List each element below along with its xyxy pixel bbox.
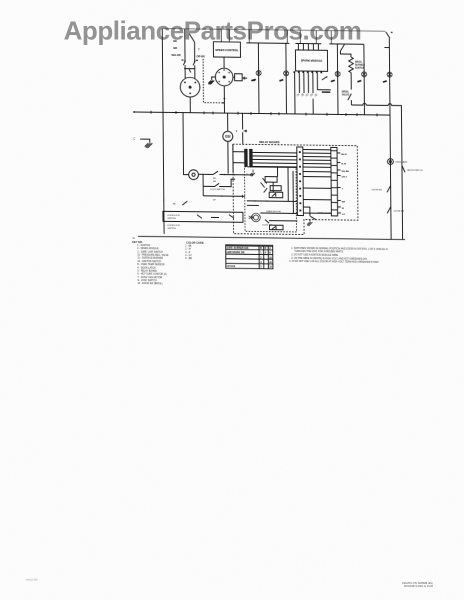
wires J1 to J2 — [303, 150, 332, 214]
diode D2 — [261, 178, 268, 193]
wire sub h1 — [247, 166, 297, 169]
wire transformer secondary — [252, 152, 297, 167]
wire to bus2 — [350, 100, 352, 105]
switch broil valve — [348, 94, 352, 101]
wire oven light feed — [303, 207, 310, 216]
motor M4 vent — [189, 170, 199, 180]
transformer T1 — [233, 144, 252, 173]
switch S2 fan speed — [193, 60, 198, 65]
relay K3 — [270, 186, 281, 191]
footer left text — [26, 579, 38, 582]
wire row2 — [203, 174, 235, 196]
motor M2 convection — [215, 68, 233, 86]
wire module pin drops — [295, 73, 331, 114]
wire speed control to motor — [223, 57, 225, 69]
wire right rail N1 — [389, 38, 391, 239]
label broil element — [355, 62, 365, 70]
wire dashed tach — [203, 59, 225, 104]
label row1 — [213, 178, 216, 183]
wiring table — [226, 245, 273, 269]
wire fan motor to bus — [189, 97, 191, 113]
switch lower N1 — [387, 207, 404, 214]
diode D1 — [269, 192, 283, 198]
wire riser a2 — [286, 30, 288, 43]
wire to fan motor — [185, 69, 195, 79]
connector arrow K1 — [243, 113, 247, 144]
wire bus2 — [351, 103, 402, 240]
legend header — [132, 240, 204, 245]
wire row3 — [203, 194, 245, 197]
resistor R1 broil element — [349, 57, 354, 73]
switch module arrow — [322, 76, 328, 80]
notes — [289, 247, 389, 264]
capacitor block M2 — [233, 74, 255, 81]
wire bottom rail — [138, 236, 405, 239]
wire vent drop — [183, 113, 189, 175]
relay K2 — [265, 177, 277, 183]
wire DSI drop — [227, 113, 230, 173]
wire branch fan motor — [184, 29, 186, 61]
switch oven light — [310, 213, 332, 220]
legend list — [137, 245, 169, 286]
spark module U2 — [295, 50, 327, 71]
ignitor E3 — [331, 71, 340, 81]
ignitor E1 — [252, 70, 261, 80]
watermark AppliancePartsPros.com — [64, 16, 362, 46]
wire tick N1 — [384, 47, 389, 49]
logic sub-board outline — [244, 167, 296, 232]
wire HV bus A — [246, 42, 289, 45]
labels J2 exits — [341, 154, 350, 216]
wire pin drop 4 — [312, 99, 314, 115]
wire riser c1 — [300, 30, 316, 43]
wires J2 exits — [337, 153, 341, 213]
ignitor E4 — [357, 72, 366, 82]
connector J1 — [297, 147, 304, 216]
wire ignitor i3 drop — [336, 44, 339, 115]
label module output — [322, 91, 331, 93]
footer right text — [402, 582, 434, 588]
wire fan bridge — [184, 65, 195, 72]
ignitor E2 — [279, 71, 288, 81]
motor M1 fan — [180, 77, 200, 97]
wire HV bus B — [329, 43, 364, 45]
ignitor E5 — [383, 72, 392, 82]
spark module bottom pins — [293, 71, 322, 73]
label bake — [342, 92, 350, 97]
wire sub h4 — [260, 212, 297, 214]
wire branch fan motor 2 — [189, 34, 194, 61]
wire ignitor i2 drop — [285, 43, 288, 114]
wire spark module top pins — [295, 43, 321, 50]
wire main bus N — [133, 111, 390, 116]
wire broil — [340, 51, 351, 57]
wire sub v1 — [273, 167, 293, 213]
lamp E6 oven — [388, 159, 408, 165]
ground sub G3 — [247, 169, 256, 176]
wire sub h5 — [269, 220, 298, 222]
switch latch — [402, 166, 423, 173]
wire sub h3 — [247, 204, 259, 206]
node junctions on bus — [151, 111, 377, 117]
speed control U1 — [213, 42, 240, 58]
switch TOD top right — [386, 32, 393, 39]
wire ignitor i1 drop — [257, 43, 260, 114]
wire below resistor — [350, 73, 352, 90]
wire riser a1 — [248, 30, 250, 43]
indicator DSI — [223, 131, 233, 141]
door lock box — [163, 211, 243, 222]
ground board G4 — [307, 220, 313, 227]
legend col2 — [185, 246, 192, 261]
label pin wires slanted — [295, 92, 318, 98]
connector J2 — [331, 147, 338, 216]
switch sub S3 — [265, 220, 269, 224]
switch door N1 — [372, 185, 391, 192]
wire riser b1 — [330, 31, 332, 44]
switch broil — [340, 44, 344, 51]
wire ignitor i4 drop — [363, 44, 366, 115]
label door lock 2 — [168, 225, 181, 230]
switch S1 fan speed — [182, 60, 186, 65]
wire motor M4 row — [198, 171, 253, 176]
ground G2 — [140, 139, 152, 148]
relay board outline — [233, 144, 358, 235]
wire top bus L1 — [162, 29, 385, 32]
wire speed control feeds — [221, 29, 229, 42]
wire left rail L1 vertical — [162, 29, 164, 234]
wire sub h2 — [247, 200, 298, 202]
wire motor M2 to bus — [223, 86, 225, 114]
ground motor M2 — [208, 77, 216, 85]
diode D3 — [270, 225, 284, 230]
motor M3 timer — [249, 213, 261, 222]
switch door lock — [164, 198, 188, 205]
